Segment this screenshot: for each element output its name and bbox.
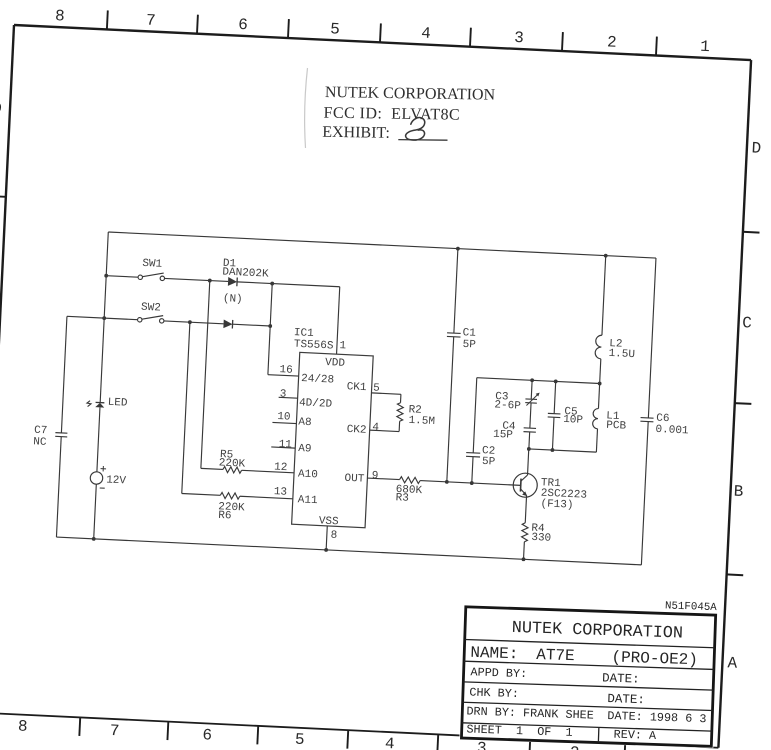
svg-text:B: B [733,483,743,501]
svg-text:DATE:: DATE: [607,692,645,707]
svg-text:EXHIBIT:: EXHIBIT: [322,124,390,142]
svg-text:9: 9 [371,470,378,482]
svg-text:7: 7 [146,11,156,29]
svg-text:NAME:: NAME: [470,644,519,664]
svg-text:3: 3 [514,29,524,47]
svg-text:12V: 12V [106,474,127,487]
svg-text:24/28: 24/28 [301,373,335,387]
svg-text:4: 4 [384,735,394,750]
svg-text:A: A [727,654,738,672]
svg-text:R3: R3 [395,492,409,505]
svg-text:4D/2D: 4D/2D [299,397,333,411]
svg-text:2: 2 [569,744,579,750]
svg-text:FCC ID: ELVAT8C: FCC ID: ELVAT8C [323,105,460,124]
svg-text:(N): (N) [223,293,243,306]
svg-text:D: D [751,139,761,157]
svg-text:12: 12 [274,462,288,475]
svg-text:(PRO-OE2): (PRO-OE2) [611,648,698,669]
svg-text:SW1: SW1 [142,258,163,271]
svg-text:7: 7 [109,722,119,740]
svg-text:NUTEK CORPORATION: NUTEK CORPORATION [325,84,496,104]
svg-text:8: 8 [55,7,65,25]
svg-text:C: C [742,314,752,332]
svg-text:8: 8 [17,717,27,735]
svg-text:8: 8 [330,530,337,542]
svg-text:N51F045A: N51F045A [665,600,718,614]
svg-text:1: 1 [700,38,710,56]
svg-text:5: 5 [330,20,340,38]
svg-text:3: 3 [279,389,286,401]
svg-text:5P: 5P [482,456,496,469]
svg-text:R6: R6 [218,510,232,523]
svg-text:NC: NC [33,436,47,449]
svg-text:APPD BY:: APPD BY: [470,665,527,681]
svg-text:220K: 220K [218,457,245,470]
svg-text:CHK BY:: CHK BY: [469,685,519,701]
svg-text:10: 10 [277,411,291,424]
svg-text:(F13): (F13) [540,498,574,512]
svg-text:13: 13 [274,486,288,499]
svg-text:TS556S: TS556S [294,339,335,353]
svg-text:330: 330 [531,532,551,545]
svg-text:A8: A8 [298,417,312,430]
svg-text:LED: LED [107,397,128,410]
svg-text:6: 6 [238,16,248,34]
svg-text:15P: 15P [493,429,514,442]
svg-text:6: 6 [202,726,212,744]
svg-text:2: 2 [607,33,617,51]
svg-text:A10: A10 [298,468,318,481]
svg-text:16: 16 [279,364,293,377]
svg-text:SW2: SW2 [141,302,161,315]
svg-text:DATE:: DATE: [602,671,640,686]
svg-text:5P: 5P [462,339,476,352]
svg-text:0.001: 0.001 [655,424,689,438]
svg-text:4: 4 [421,25,431,43]
svg-text:5: 5 [373,382,380,394]
svg-text:3: 3 [477,739,487,750]
svg-text:1: 1 [339,340,347,352]
svg-text:5: 5 [294,731,304,749]
svg-text:OUT: OUT [344,473,365,486]
svg-text:2-6P: 2-6P [494,399,521,412]
svg-text:CK1: CK1 [346,381,367,394]
svg-text:A9: A9 [298,443,312,456]
svg-text:CK2: CK2 [346,424,366,437]
svg-text:REV: A: REV: A [613,728,657,743]
svg-text:1.5U: 1.5U [608,348,635,361]
svg-text:DAN202K: DAN202K [222,266,269,280]
svg-text:4: 4 [372,422,380,434]
svg-text:11: 11 [278,439,292,452]
svg-text:VSS: VSS [319,515,340,528]
svg-text:1.5M: 1.5M [408,415,435,428]
svg-text:AT7E: AT7E [536,646,575,665]
svg-text:PCB: PCB [606,420,627,433]
svg-text:A11: A11 [297,494,318,507]
svg-text:10P: 10P [563,414,584,427]
svg-text:VDD: VDD [325,357,346,370]
